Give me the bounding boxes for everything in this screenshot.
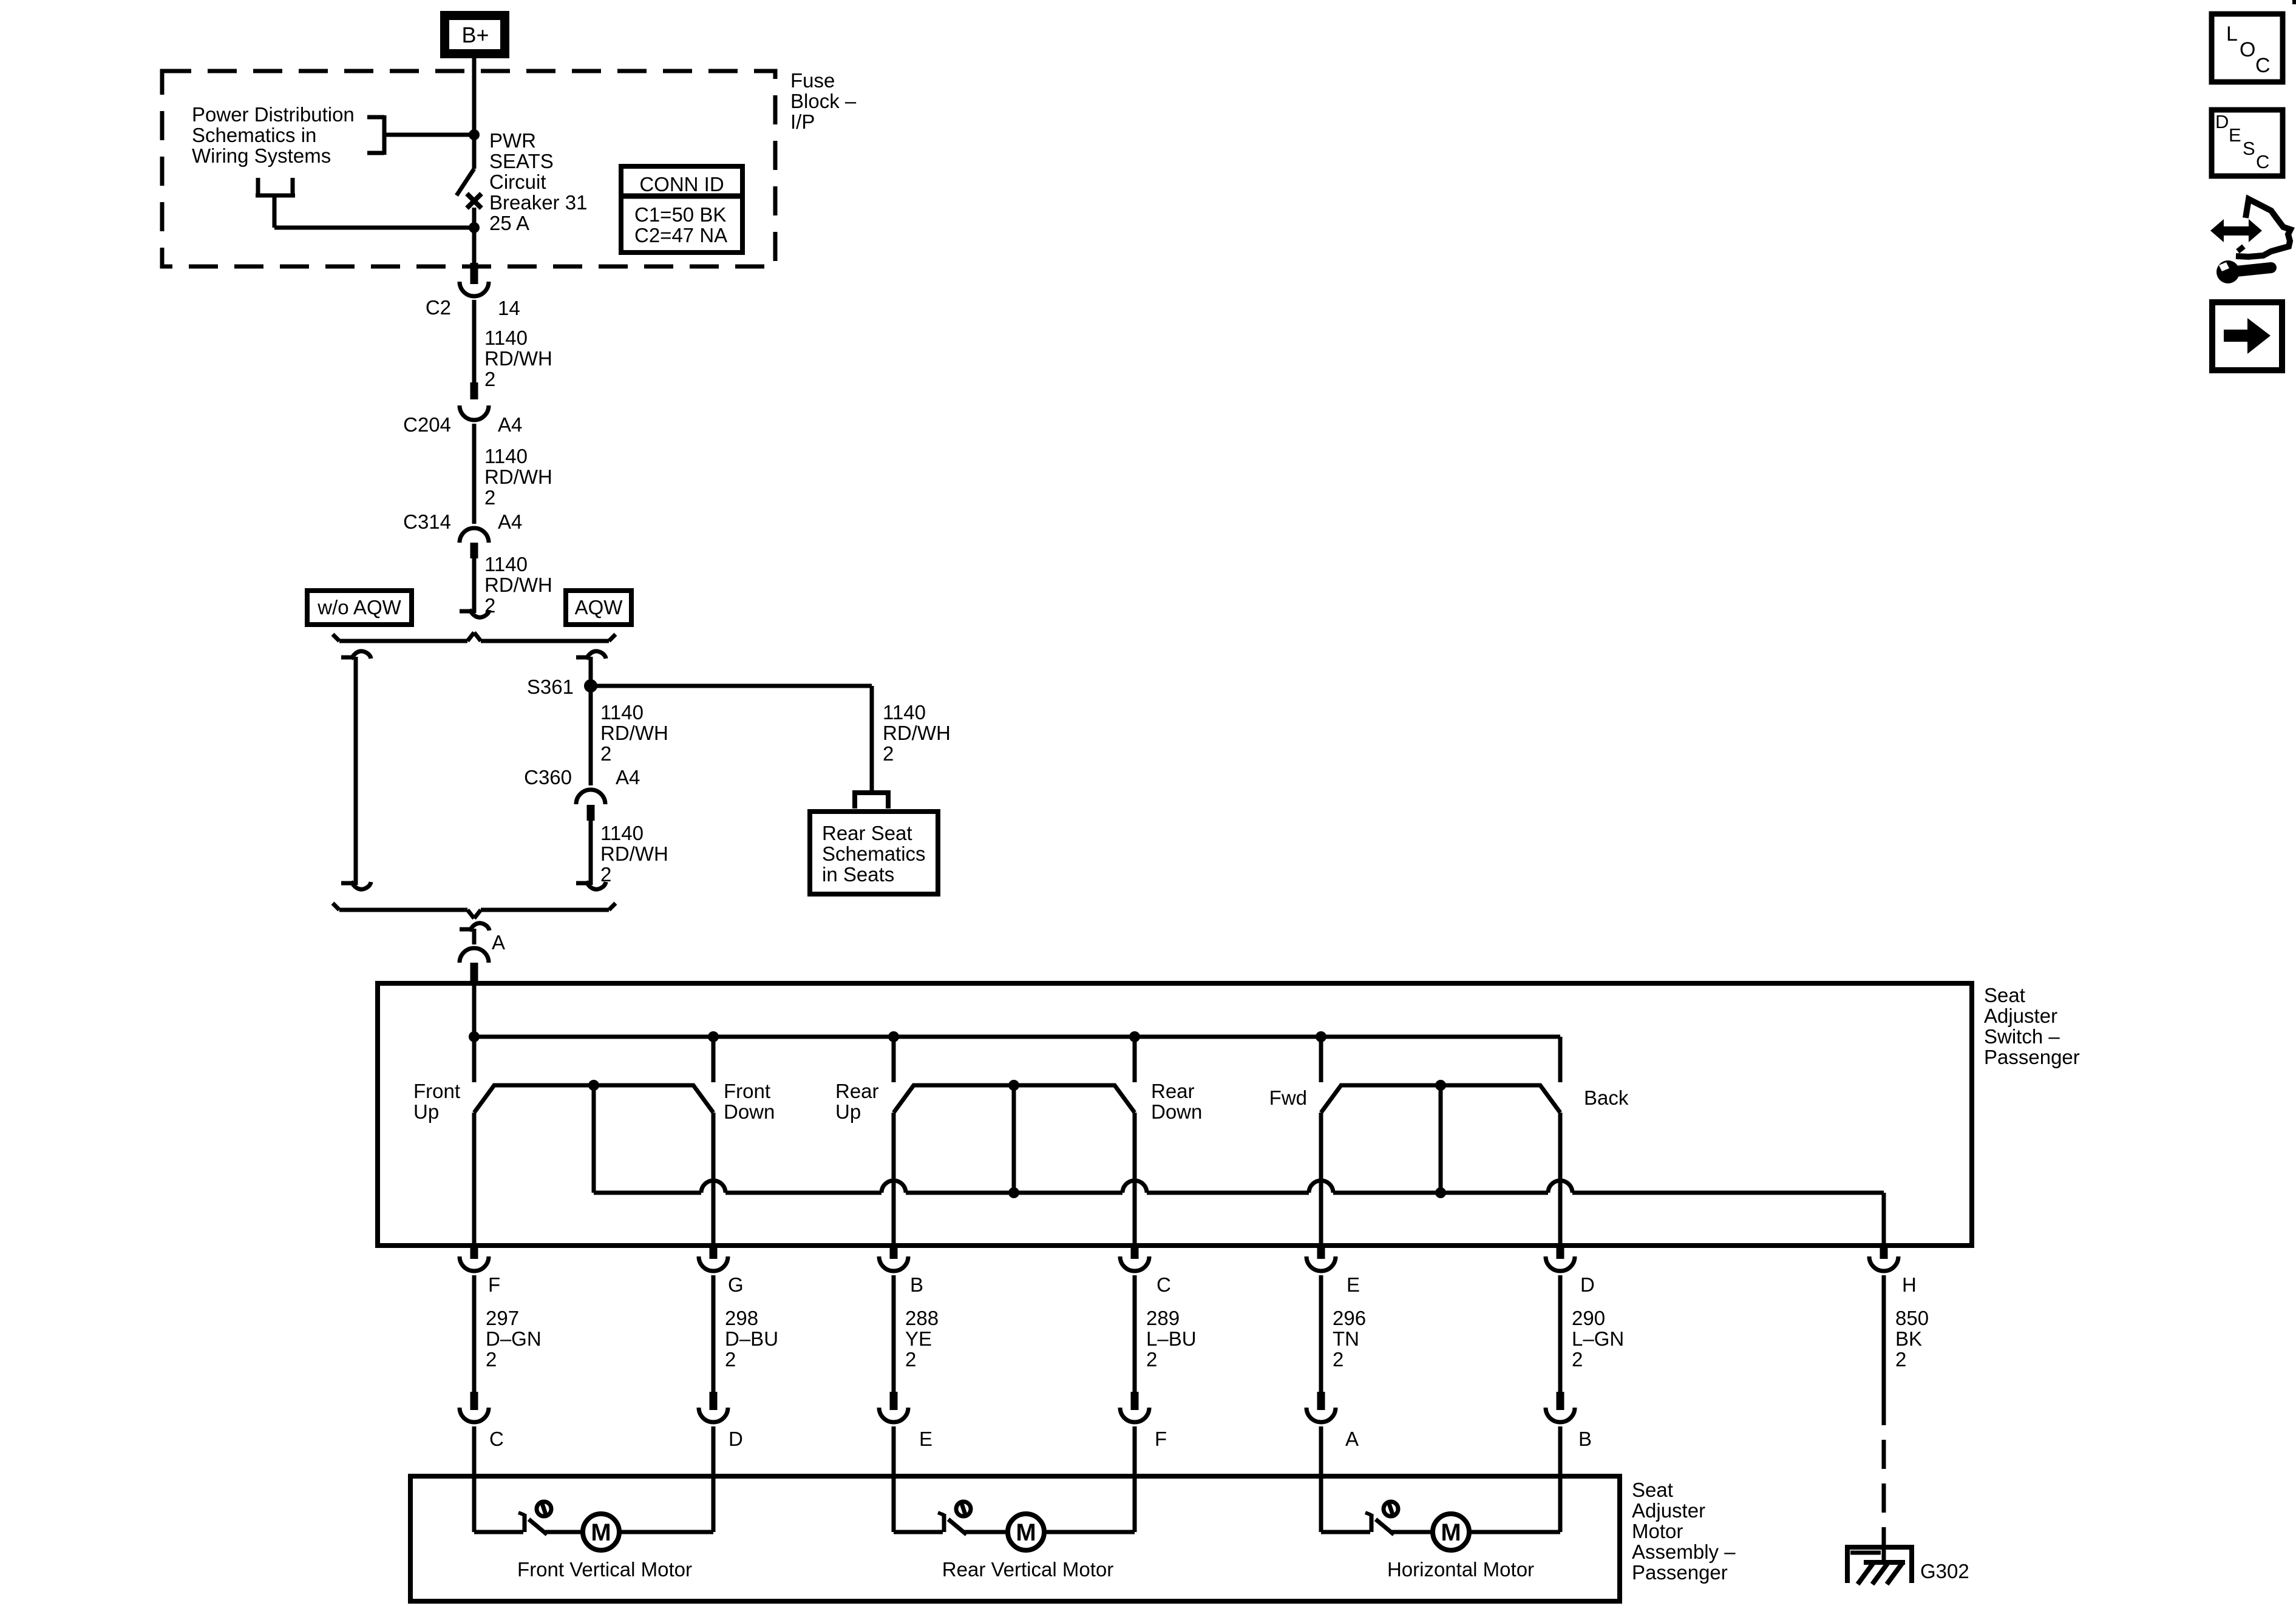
switch return bus xyxy=(594,1191,701,1195)
svg-text:RD/WH: RD/WH xyxy=(600,842,668,865)
svg-text:2: 2 xyxy=(725,1348,736,1371)
wire circuit 298 D–BU xyxy=(712,1275,716,1392)
switch rocker Rear Up/Down xyxy=(894,1085,1135,1113)
svg-text:2: 2 xyxy=(1146,1348,1157,1371)
wire 1140 RD/WH segment 2 xyxy=(472,424,477,524)
svg-text:2: 2 xyxy=(1333,1348,1343,1371)
top option brace xyxy=(339,639,467,643)
svg-text:RD/WH: RD/WH xyxy=(600,722,668,744)
svg-text:288: 288 xyxy=(905,1307,939,1329)
connector row1 D xyxy=(1557,1246,1564,1259)
svg-text:E: E xyxy=(1347,1273,1360,1296)
svg-text:2: 2 xyxy=(484,486,495,509)
wire circuit 850 BK solid part xyxy=(1882,1275,1886,1425)
svg-text:CONN ID: CONN ID xyxy=(639,173,724,195)
wire into motor box at C xyxy=(472,1426,477,1476)
rocker 2 center wire xyxy=(1012,1085,1016,1193)
connector C314 pin A4 xyxy=(460,528,489,543)
svg-text:25 A: 25 A xyxy=(489,212,529,234)
svg-text:D–GN: D–GN xyxy=(486,1327,542,1350)
svg-text:Adjuster: Adjuster xyxy=(1632,1499,1705,1522)
svg-text:297: 297 xyxy=(486,1307,519,1329)
seat adjuster motor assembly box xyxy=(410,1476,1620,1601)
svg-text:1140: 1140 xyxy=(600,822,644,844)
branch AQW hook bottom xyxy=(576,881,589,886)
svg-text:A4: A4 xyxy=(616,766,640,788)
svg-text:Rear Vertical Motor: Rear Vertical Motor xyxy=(942,1558,1113,1581)
svg-text:Horizontal Motor: Horizontal Motor xyxy=(1387,1558,1534,1581)
wire circuit 296 TN xyxy=(1319,1275,1323,1392)
icon DESC box xyxy=(2212,110,2283,176)
svg-text:290: 290 xyxy=(1572,1307,1605,1329)
ground G302 symbol xyxy=(1845,1547,1850,1583)
svg-text:RD/WH: RD/WH xyxy=(484,574,552,596)
svg-text:A4: A4 xyxy=(498,413,522,436)
svg-text:A: A xyxy=(492,931,505,954)
svg-text:D–BU: D–BU xyxy=(725,1327,778,1350)
return bus corner to H xyxy=(1882,1193,1886,1246)
svg-text:E: E xyxy=(919,1428,932,1450)
fuse block dashed border xyxy=(162,71,775,266)
svg-text:Front: Front xyxy=(724,1080,770,1102)
svg-text:L–GN: L–GN xyxy=(1572,1327,1624,1350)
switch output wire x=2570 xyxy=(1558,1113,1563,1246)
connector row1 H xyxy=(1880,1246,1888,1259)
svg-text:14: 14 xyxy=(498,297,520,319)
svg-text:Down: Down xyxy=(1151,1100,1202,1123)
switch rocker Fwd/Back xyxy=(1321,1085,1560,1113)
connector row1 F xyxy=(470,1246,478,1259)
connector row2 E xyxy=(890,1392,898,1410)
wire 1140 RD/WH segment 3 xyxy=(472,558,477,613)
svg-text:Rear Seat: Rear Seat xyxy=(822,822,912,844)
svg-text:1140: 1140 xyxy=(484,327,528,349)
bus junction 5 xyxy=(1316,1031,1326,1042)
svg-text:RD/WH: RD/WH xyxy=(883,722,951,744)
svg-text:298: 298 xyxy=(725,1307,758,1329)
svg-text:S: S xyxy=(2243,138,2255,159)
wire S361 to C360 xyxy=(589,686,593,785)
wire circuit 297 D–GN xyxy=(472,1275,477,1392)
front vertical motor circuit xyxy=(472,1476,477,1532)
svg-text:C314: C314 xyxy=(403,510,451,533)
svg-text:C2=47 NA: C2=47 NA xyxy=(634,224,727,246)
page edge mark xyxy=(2292,0,2296,4)
wire trunk to connector C2 xyxy=(472,228,477,265)
svg-text:C360: C360 xyxy=(524,766,572,788)
svg-text:C: C xyxy=(489,1428,504,1450)
svg-text:2: 2 xyxy=(905,1348,916,1371)
wire into motor box at F xyxy=(1133,1426,1137,1476)
pole stub x=1472 xyxy=(892,1037,896,1082)
svg-text:E: E xyxy=(2229,124,2241,146)
switch output wire x=781 xyxy=(472,1113,477,1246)
rear seat schematics box xyxy=(810,812,938,894)
bus junction 1 xyxy=(469,1031,480,1042)
wire 1140 RD/WH segment 4 xyxy=(589,821,593,885)
svg-text:D: D xyxy=(729,1428,743,1450)
branch w/o AQW hook top xyxy=(341,656,355,660)
svg-text:Seat: Seat xyxy=(1632,1479,1673,1501)
svg-text:M: M xyxy=(591,1519,611,1546)
option box AQW xyxy=(566,591,631,625)
svg-text:2: 2 xyxy=(1895,1348,1906,1371)
power symbol B+ box xyxy=(440,11,509,58)
svg-text:L: L xyxy=(2226,22,2238,46)
svg-text:2: 2 xyxy=(484,368,495,390)
svg-text:L–BU: L–BU xyxy=(1146,1327,1197,1350)
svg-text:Motor: Motor xyxy=(1632,1520,1683,1542)
switch common bus xyxy=(474,1035,1560,1039)
switch output wire x=1869 xyxy=(1133,1113,1137,1246)
icon double arrow xyxy=(2221,226,2251,236)
connector row1 E xyxy=(1317,1246,1325,1259)
svg-text:F: F xyxy=(488,1273,500,1296)
bus junction 3 xyxy=(888,1031,899,1042)
connector C2 pin 14 xyxy=(470,263,478,284)
svg-text:Fuse: Fuse xyxy=(790,69,835,92)
svg-text:Schematics: Schematics xyxy=(822,842,926,865)
bus corner to Back pole xyxy=(1558,1037,1563,1082)
svg-text:C: C xyxy=(2256,151,2269,172)
rocker 3 dot xyxy=(1435,1080,1446,1091)
pole stub x=1869 xyxy=(1133,1037,1137,1082)
svg-text:w/o AQW: w/o AQW xyxy=(317,596,401,619)
svg-text:Up: Up xyxy=(835,1100,861,1123)
branch AQW hook top xyxy=(576,656,589,660)
svg-text:C1=50 BK: C1=50 BK xyxy=(634,203,726,226)
svg-text:C204: C204 xyxy=(403,413,451,436)
pole stub x=781 xyxy=(472,1037,477,1082)
wire fork to trunk xyxy=(273,195,277,228)
svg-text:O: O xyxy=(2240,38,2255,61)
svg-text:G302: G302 xyxy=(1920,1560,1969,1582)
rocker 1 center wire xyxy=(592,1085,596,1193)
option box w/o AQW xyxy=(307,591,412,625)
svg-text:Rear: Rear xyxy=(1151,1080,1195,1102)
svg-text:I/P: I/P xyxy=(790,110,815,133)
svg-text:2: 2 xyxy=(883,742,894,765)
wire 850 BK dashed to ground xyxy=(1882,1440,1886,1469)
bus junction 4 xyxy=(1129,1031,1140,1042)
svg-text:TN: TN xyxy=(1333,1327,1359,1350)
pole stub x=2176 xyxy=(1319,1037,1323,1082)
fork symbol below Power Distribution text xyxy=(256,178,260,197)
node junction above breaker xyxy=(469,129,480,140)
connector row1 B xyxy=(890,1246,898,1259)
wire circuit 290 L–GN xyxy=(1558,1275,1563,1392)
switch rocker Front Up/Down xyxy=(474,1085,713,1113)
return bus junction 2 xyxy=(1008,1187,1019,1198)
wire into motor box at E xyxy=(892,1426,896,1476)
svg-text:2: 2 xyxy=(600,742,611,765)
wire into motor box at B xyxy=(1558,1426,1563,1476)
svg-text:1140: 1140 xyxy=(883,701,926,724)
svg-text:2: 2 xyxy=(486,1348,497,1371)
svg-text:PWR: PWR xyxy=(489,129,536,152)
connector row2 F xyxy=(1131,1392,1139,1410)
svg-text:1140: 1140 xyxy=(484,445,528,467)
switch output wire x=2176 xyxy=(1319,1113,1323,1246)
svg-text:Circuit: Circuit xyxy=(489,171,546,193)
wire into motor box at D xyxy=(712,1426,716,1476)
bottom option brace xyxy=(339,908,467,912)
svg-text:Back: Back xyxy=(1584,1086,1629,1109)
wire 1140 RD/WH segment 1 xyxy=(472,300,477,398)
svg-text:A: A xyxy=(1345,1428,1359,1450)
connector A xyxy=(460,948,489,963)
svg-text:Adjuster: Adjuster xyxy=(1984,1005,2057,1027)
wire B+ to fuse block trunk xyxy=(472,58,477,136)
svg-text:F: F xyxy=(1155,1428,1167,1450)
svg-text:B: B xyxy=(1578,1428,1592,1450)
plug symbol above rear seat box xyxy=(852,790,891,795)
bracket from Power Distribution text xyxy=(367,115,384,120)
connector row2 D xyxy=(710,1392,718,1410)
svg-text:SEATS: SEATS xyxy=(489,150,554,172)
svg-text:BK: BK xyxy=(1895,1327,1922,1350)
svg-text:289: 289 xyxy=(1146,1307,1180,1329)
wire bracket to trunk xyxy=(384,133,474,137)
svg-text:Passenger: Passenger xyxy=(1984,1046,2080,1068)
rocker 2 dot xyxy=(1008,1080,1019,1091)
connector row2 C xyxy=(470,1392,478,1410)
icon hand outline xyxy=(2236,199,2291,257)
svg-text:B: B xyxy=(910,1273,923,1296)
svg-text:RD/WH: RD/WH xyxy=(484,347,552,370)
wire to connector A xyxy=(472,929,477,944)
wire branch AQW to S361 xyxy=(589,657,593,686)
svg-text:Front: Front xyxy=(413,1080,460,1102)
svg-text:1140: 1140 xyxy=(600,701,644,724)
svg-text:C: C xyxy=(2255,54,2271,77)
switch output wire x=1175 xyxy=(712,1113,716,1246)
icon forward arrow box xyxy=(2212,302,2282,370)
svg-text:S361: S361 xyxy=(527,676,574,698)
svg-text:Schematics in: Schematics in xyxy=(192,124,316,146)
svg-text:Passenger: Passenger xyxy=(1632,1561,1728,1584)
circuit breaker PWR SEATS Circuit Breaker 31 25A xyxy=(472,136,477,169)
svg-text:D: D xyxy=(1580,1273,1595,1296)
svg-text:C: C xyxy=(1156,1273,1171,1296)
splice S361 xyxy=(584,679,597,693)
connector row2 B xyxy=(1557,1392,1564,1410)
svg-text:Front Vertical Motor: Front Vertical Motor xyxy=(517,1558,692,1581)
svg-text:G: G xyxy=(728,1273,744,1296)
wire circuit 289 L–BU xyxy=(1133,1275,1137,1392)
rear vertical motor circuit xyxy=(892,1476,896,1532)
CONN ID box xyxy=(621,166,742,253)
wire A into bus xyxy=(472,983,477,1037)
connector C204 pin A4 xyxy=(470,382,478,399)
svg-text:in Seats: in Seats xyxy=(822,863,894,886)
icon wrench xyxy=(2216,260,2240,283)
svg-text:296: 296 xyxy=(1333,1307,1366,1329)
connector A hook xyxy=(460,927,473,932)
svg-text:Up: Up xyxy=(413,1100,439,1123)
svg-text:Wiring Systems: Wiring Systems xyxy=(192,144,331,167)
svg-text:RD/WH: RD/WH xyxy=(484,466,552,488)
wire S361 to rear seat feed xyxy=(591,684,872,688)
svg-text:1140: 1140 xyxy=(484,553,528,575)
svg-text:H: H xyxy=(1902,1273,1917,1296)
pole stub x=1175 xyxy=(712,1037,716,1082)
icon LOC box xyxy=(2212,14,2283,82)
wire circuit 288 YE xyxy=(892,1275,896,1392)
svg-text:850: 850 xyxy=(1895,1307,1929,1329)
svg-text:Assembly –: Assembly – xyxy=(1632,1541,1736,1563)
svg-text:2: 2 xyxy=(1572,1348,1583,1371)
connector row2 A xyxy=(1317,1392,1325,1410)
branch w/o AQW hook bottom xyxy=(341,881,355,886)
return bus junction 3 xyxy=(1435,1187,1446,1198)
seat adjuster switch box xyxy=(378,983,1972,1246)
connector row1 G xyxy=(710,1246,718,1259)
wire into motor box at A xyxy=(1319,1426,1323,1476)
svg-text:Fwd: Fwd xyxy=(1269,1086,1307,1109)
svg-text:Power Distribution: Power Distribution xyxy=(192,103,355,126)
switch output wire x=1472 xyxy=(892,1113,896,1246)
horizontal motor circuit xyxy=(1319,1476,1323,1532)
svg-text:M: M xyxy=(1016,1519,1036,1546)
svg-text:B+: B+ xyxy=(461,22,489,47)
svg-text:M: M xyxy=(1441,1519,1461,1546)
svg-text:Switch –: Switch – xyxy=(1984,1025,2060,1048)
svg-text:AQW: AQW xyxy=(575,596,623,619)
svg-text:Down: Down xyxy=(724,1100,775,1123)
svg-text:YE: YE xyxy=(905,1327,932,1350)
svg-text:Rear: Rear xyxy=(835,1080,879,1102)
svg-text:D: D xyxy=(2215,111,2229,132)
wire branch w/o AQW xyxy=(354,657,358,885)
rocker 3 center wire xyxy=(1439,1085,1443,1193)
svg-text:A4: A4 xyxy=(498,510,522,533)
connector C360 pin A4 xyxy=(576,790,605,804)
rocker 1 dot xyxy=(588,1080,599,1091)
svg-text:Breaker 31: Breaker 31 xyxy=(489,191,587,214)
bus junction 2 xyxy=(708,1031,719,1042)
svg-text:Seat: Seat xyxy=(1984,984,2025,1006)
svg-text:Block –: Block – xyxy=(790,90,857,112)
break hook end of trunk xyxy=(460,609,473,614)
connector row1 C xyxy=(1131,1246,1139,1259)
svg-text:C2: C2 xyxy=(426,296,451,319)
node junction below breaker xyxy=(469,222,480,233)
